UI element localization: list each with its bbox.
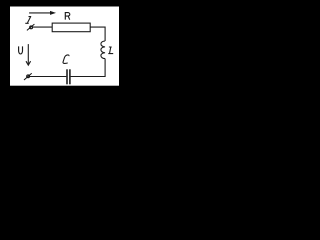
inductor L [101, 41, 105, 59]
label L [108, 47, 113, 54]
capacitor C [67, 69, 70, 84]
current arrow I [29, 11, 55, 14]
white schematic panel [10, 7, 119, 86]
wire resistor to top-right corner [90, 27, 105, 41]
label I [25, 17, 31, 24]
label C [63, 55, 69, 64]
terminal (bottom-left pole) [24, 73, 32, 80]
wire inductor to bottom-right corner and to capacitor [71, 59, 106, 77]
terminal (top-left pole) [27, 24, 35, 30]
label U [19, 46, 23, 54]
label R [65, 13, 69, 20]
resistor R [52, 23, 90, 32]
background [0, 0, 133, 96]
wire terminal to resistor [33, 26, 53, 28]
voltage arrow U [26, 44, 31, 65]
wire capacitor to bottom terminal [30, 76, 67, 78]
